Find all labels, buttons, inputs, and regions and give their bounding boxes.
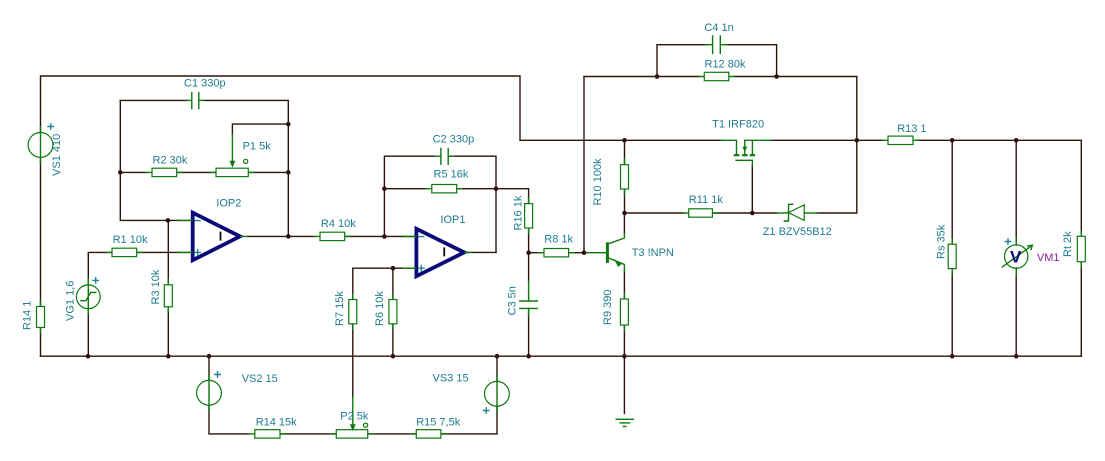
svg-text:VG1 1,6: VG1 1,6 [65, 281, 77, 321]
wire R16 bottom to C3 node [528, 228, 530, 253]
resistor R7 15k (vertical) [349, 294, 357, 329]
node ground junction [622, 354, 627, 359]
resistor R15 7,5k [411, 430, 447, 438]
svg-text:T3 !NPN: T3 !NPN [632, 247, 674, 259]
svg-text:Z1 BZV55B12: Z1 BZV55B12 [763, 226, 832, 238]
svg-text:VM1: VM1 [1037, 252, 1060, 264]
svg-text:VS3 15: VS3 15 [433, 373, 469, 385]
node R10 bottom R11 junction [622, 211, 627, 216]
wire R6 top lead [392, 268, 394, 299]
resistor R6 10k (vertical) [389, 294, 397, 329]
wire VS1 top to x520 step down to drain rail [41, 76, 723, 140]
generator VG1 1,6 [76, 279, 100, 314]
node IOP2 output junction [286, 234, 291, 239]
svg-text:IOP1: IOP1 [440, 214, 465, 226]
wire VG1 bottom to rail [87, 309, 89, 357]
svg-text:VS2 15: VS2 15 [242, 373, 278, 385]
svg-text:Rs 35k: Rs 35k [936, 224, 948, 259]
voltage source VS3 15 [485, 375, 510, 412]
wire C3 top lead [528, 253, 530, 282]
resistor R14 1 (vertical, left edge) [37, 301, 45, 333]
plus sign VS1 [47, 123, 54, 130]
wire ground stem [623, 356, 625, 413]
wire Rt bottom to bottom rail [1080, 262, 1082, 357]
wire VS2 top to rail [208, 356, 210, 380]
node C1 right riser top junction [286, 122, 291, 127]
svg-text:C3 5n: C3 5n [507, 286, 519, 315]
wire T1 gate drop [751, 165, 753, 213]
capacitor C1 330p [186, 93, 205, 109]
wire Rs branch bottom [951, 269, 953, 357]
wire R7 bottom through rail to P2 wiper [352, 324, 354, 398]
svg-text:R15 7,5k: R15 7,5k [416, 417, 461, 429]
wire VM1 branch bottom [1015, 268, 1017, 356]
voltage source VS1 410 [28, 127, 53, 164]
wire P1 wiper horizontal [232, 124, 288, 135]
op-amp IOP2 [193, 213, 240, 261]
svg-text:R14 15k: R14 15k [256, 417, 297, 429]
op-amp IOP1 input/output leads [404, 237, 473, 269]
plus sign VM1 [1005, 238, 1012, 245]
node R6 bottom junction [391, 354, 396, 359]
svg-text:R9 390: R9 390 [602, 290, 614, 325]
svg-text:IOP2: IOP2 [216, 198, 241, 210]
transistor T3 !NPN [584, 234, 624, 272]
wire VS3 top to rail [496, 356, 498, 381]
node VS3 top junction [495, 354, 500, 359]
wire R3 bottom to rail [167, 307, 169, 356]
wire VG1 top corner to R1 [88, 252, 112, 285]
resistor R9 390 (vertical) [620, 294, 628, 331]
wire bottom rail [41, 355, 1082, 357]
node R5 row left junction [382, 186, 387, 191]
wire R5 row right to R16 [457, 189, 529, 204]
wire x584 vertical from R12 row to T3 base node [583, 77, 585, 253]
node R2 row left junction [118, 170, 123, 175]
wire IOP1 plus row corner [353, 267, 417, 269]
svg-text:R6 10k: R6 10k [374, 291, 386, 326]
resistor Rt 2k (vertical) [1077, 231, 1085, 267]
node C3 bottom junction [526, 354, 531, 359]
wire Z1 right to corner up [817, 140, 857, 213]
svg-text:R2 30k: R2 30k [153, 155, 188, 167]
svg-text:VS1 410: VS1 410 [51, 134, 63, 176]
voltage source VS2 15 [197, 374, 222, 411]
wire C4 branch right riser [727, 45, 777, 77]
svg-text:R4 10k: R4 10k [321, 218, 356, 230]
wire C2 right to riser down [449, 156, 496, 252]
resistor R8 1k [539, 249, 575, 257]
wire VS1 bottom to R14 [40, 157, 42, 306]
capacitor C3 5n (vertical) [520, 281, 538, 316]
wire R12 row right to corner down to drain rail [734, 77, 857, 141]
wire R7 top lead [352, 268, 354, 299]
node IOP1 plus input junction [391, 266, 396, 271]
wire R13 to right corner down to Rt [917, 140, 1081, 236]
wire R15 to VS3 corner up [441, 406, 497, 434]
resistor R10 100k (vertical) [621, 159, 629, 195]
wire R10 bottom to R11 node [624, 189, 626, 213]
wire C1 left riser to minus input row [120, 100, 192, 220]
svg-text:C1 330p: C1 330p [184, 78, 226, 90]
resistor R16 1k (vertical) [525, 198, 533, 234]
wire C4 branch left riser [657, 45, 706, 77]
capacitor C2 330p [435, 149, 454, 165]
ground [616, 419, 633, 426]
plus sign VG1 [92, 277, 99, 284]
wire R4 to IOP1 minus input [344, 235, 416, 237]
svg-text:P2 5k: P2 5k [340, 411, 369, 423]
wire IOP1 output to feedback riser [464, 251, 496, 253]
wire R8 right to base node [569, 252, 584, 254]
zener diode Z1 BZV55B12 [777, 204, 819, 221]
wire R11 row left [625, 212, 684, 214]
svg-text:R5 16k: R5 16k [434, 169, 469, 181]
wire R14 bottom to rail [40, 328, 42, 357]
wire VM1 branch top [1015, 140, 1017, 245]
wire C3 bottom to rail [528, 308, 530, 356]
svg-text:R14 1: R14 1 [22, 301, 34, 330]
wire Rs branch top [951, 140, 953, 244]
wire C1 row right to right riser [204, 100, 288, 236]
voltmeter VM1 [1002, 238, 1032, 275]
wire P1 right to riser [248, 171, 288, 173]
wire R9 bottom to bottom rail [623, 325, 625, 356]
node VM1 bottom junction [1014, 354, 1019, 359]
svg-text:T1 IRF820: T1 IRF820 [712, 119, 764, 131]
svg-text:R11 1k: R11 1k [689, 194, 724, 206]
svg-text:R12 80k: R12 80k [705, 59, 746, 71]
wire R6 bottom to rail [392, 324, 394, 356]
svg-text:R10 100k: R10 100k [592, 158, 604, 206]
wire R12 row left end from x584 [584, 76, 699, 78]
wire R3 vertical top [167, 220, 169, 284]
resistor R2 30k [147, 168, 183, 176]
node R10 top junction [622, 138, 627, 143]
wire C1 row left [120, 99, 186, 101]
svg-text:R3 10k: R3 10k [150, 269, 162, 304]
svg-text:R16 1k: R16 1k [513, 195, 525, 230]
node drain rail R12 junction [855, 138, 860, 143]
svg-text:R8 1k: R8 1k [544, 234, 573, 246]
op-amp IOP1 [416, 229, 464, 276]
node R5 row right junction [494, 186, 499, 191]
wire T3 emitter to R9 [623, 270, 625, 299]
wire R5 row left [384, 188, 426, 190]
node P1 right junction [286, 170, 291, 175]
wire R10 top lead [624, 140, 626, 164]
resistor Rs 35k (vertical) [948, 239, 956, 274]
node IOP2 minus input junction [166, 218, 171, 223]
wire C2 left riser [384, 156, 435, 236]
svg-text:Rt 2k: Rt 2k [1062, 231, 1074, 257]
resistor R3 10k (vertical) [164, 280, 172, 313]
resistor R5 16k [426, 185, 462, 193]
plus sign VS2 [214, 371, 221, 378]
node VG1 bottom junction [86, 354, 91, 359]
node IOP1 minus input junction [382, 234, 387, 239]
svg-text:P1 5k: P1 5k [243, 141, 272, 153]
node C3 R8 junction [526, 250, 531, 255]
node T3 base junction [582, 250, 587, 255]
resistor R12 80k [699, 72, 735, 80]
node Rs top junction [950, 138, 955, 143]
wire R11 to gate node to Z1 [712, 212, 777, 214]
node Rs bottom junction [950, 354, 955, 359]
op-amp IOP2 input/output leads [179, 220, 249, 252]
svg-text:C2 330p: C2 330p [433, 134, 475, 146]
resistor R4 10k [315, 232, 351, 240]
resistor R11 1k [683, 209, 718, 217]
wire drain rail right of T1 to R13 [771, 139, 884, 141]
plus sign VS3 [483, 407, 490, 414]
resistor R13 1 [883, 136, 919, 144]
node C4 right junction [774, 74, 779, 79]
wire R14b to P2 [280, 433, 336, 435]
wire R1 right to op-amp plus input [137, 251, 193, 253]
wire T3 collector from R11 node [623, 213, 625, 234]
resistor R14 15k [249, 430, 286, 438]
svg-text:V: V [1010, 247, 1022, 266]
svg-text:R1 10k: R1 10k [113, 234, 148, 246]
wire R2 row left lead [120, 171, 147, 173]
capacitor C4 1n [706, 36, 727, 53]
wire P2 to R15 [368, 433, 417, 435]
resistor R1 10k [107, 248, 143, 256]
node R3 bottom junction [166, 354, 171, 359]
mosfet T1 IRF820 [721, 140, 771, 166]
svg-text:R13 1: R13 1 [897, 123, 926, 135]
node C4 left junction [655, 74, 660, 79]
wire R2 to P1 [177, 171, 216, 173]
wire R8 row left [529, 252, 544, 254]
potentiometer P2 5k [331, 397, 374, 438]
potentiometer P1 5k [211, 134, 255, 177]
wire IOP2 output row to R4 [247, 235, 315, 237]
node T1 gate junction [750, 211, 755, 216]
node VM1 top junction [1014, 138, 1019, 143]
wire VS2 bottom corner to R14b [209, 405, 249, 434]
svg-text:C4 1n: C4 1n [704, 22, 733, 34]
svg-text:R7 15k: R7 15k [334, 291, 346, 326]
node VS2 top junction [207, 354, 212, 359]
